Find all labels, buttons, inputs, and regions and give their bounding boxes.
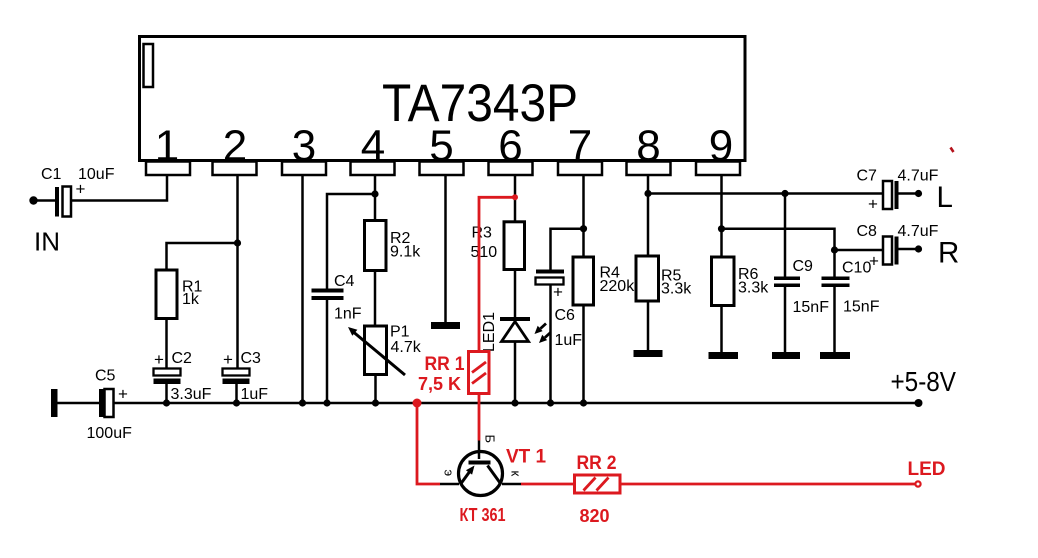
svg-text:7,5 K: 7,5 K <box>418 374 461 394</box>
svg-text:R3: R3 <box>472 225 493 242</box>
svg-text:+: + <box>118 385 128 404</box>
pin 2 <box>213 122 257 176</box>
node LED1/rail <box>511 399 518 406</box>
pin 3 <box>282 122 326 176</box>
wire R5 to ground <box>647 301 650 350</box>
wire C8 to R terminal <box>899 248 919 251</box>
svg-text:6: 6 <box>498 122 522 171</box>
node C2/rail <box>163 399 170 406</box>
svg-text:3.3uF: 3.3uF <box>171 386 212 403</box>
red wire pin6 to RR1 <box>479 197 515 351</box>
svg-text:4.7uF: 4.7uF <box>898 223 939 240</box>
pin 9 <box>696 122 740 176</box>
svg-text:C6: C6 <box>555 307 576 324</box>
wire pin 2 down to C3 <box>236 175 239 369</box>
node pin7/C6 <box>580 225 587 232</box>
svg-text:R: R <box>938 237 959 270</box>
svg-text:3: 3 <box>292 122 316 171</box>
potentiometer P1 4.7k <box>348 324 422 376</box>
svg-text:+: + <box>868 195 878 214</box>
wire C3 to rail <box>235 384 238 403</box>
wire pin 7 down to R4 <box>582 175 585 257</box>
svg-text:4.7uF: 4.7uF <box>898 168 939 185</box>
LED LED1 <box>481 312 551 352</box>
wire C4 top to pin 4 <box>327 194 375 289</box>
wire C9 top <box>784 194 787 277</box>
wire pin 5 down to ground <box>444 175 447 322</box>
node pin4/C4 <box>371 190 378 197</box>
capacitor C2 3.3uF <box>154 350 212 403</box>
wire C7 to L terminal <box>899 192 919 195</box>
svg-text:L: L <box>937 181 953 214</box>
node pin9 branch <box>718 225 725 232</box>
wire pin 4 down to R2 <box>374 175 377 221</box>
wire pin 3 down to rail <box>301 175 304 403</box>
svg-text:+: + <box>154 350 164 369</box>
ground R5 <box>634 350 663 357</box>
wire C10 to ground <box>833 287 836 352</box>
input terminal node <box>29 196 37 204</box>
svg-text:C4: C4 <box>334 273 355 290</box>
svg-text:C9: C9 <box>793 258 814 275</box>
svg-text:+: + <box>553 283 563 302</box>
pin 7 <box>558 122 602 176</box>
wire pin9 to C10/C8 <box>722 229 835 277</box>
svg-text:к: к <box>509 471 524 477</box>
svg-text:1k: 1k <box>182 291 200 308</box>
svg-text:1uF: 1uF <box>241 386 269 403</box>
node pin6 red <box>512 194 518 200</box>
svg-text:C7: C7 <box>857 168 878 185</box>
svg-text:TA7343P: TA7343P <box>382 74 578 133</box>
wire R6 to ground <box>720 306 723 353</box>
wire C6 top to pin 7 <box>551 229 584 270</box>
svg-text:IN: IN <box>34 227 60 257</box>
wire pin 9 down to R6 <box>720 175 723 257</box>
node R terminal <box>915 245 922 252</box>
svg-text:+5-8V: +5-8V <box>891 366 957 397</box>
svg-text:C10: C10 <box>842 260 871 277</box>
svg-text:220k: 220k <box>600 278 636 295</box>
wire pin8 node to C7 <box>648 192 883 195</box>
svg-text:15nF: 15nF <box>843 299 880 316</box>
svg-text:LED: LED <box>908 459 946 480</box>
resistor R3 510 <box>471 222 525 270</box>
IC U1 body TA7343P <box>140 37 746 161</box>
wire R1 to C2 <box>165 319 168 369</box>
resistor RR1 7,5K (red) <box>418 352 489 395</box>
wire LED1 to rail <box>514 342 517 404</box>
svg-text:2: 2 <box>223 122 247 171</box>
wire R4 to rail <box>582 305 585 403</box>
wire P1 to rail <box>374 375 377 404</box>
pin 1 <box>146 122 190 176</box>
svg-text:C2: C2 <box>172 350 193 367</box>
svg-text:10uF: 10uF <box>78 166 115 183</box>
svg-text:4: 4 <box>361 122 385 171</box>
resistor R6 3.3k <box>712 257 770 306</box>
resistor R5 3.3k <box>636 256 692 301</box>
svg-text:1uF: 1uF <box>555 332 583 349</box>
pin 4 <box>351 122 395 176</box>
transistor VT1 KT361 <box>440 435 547 526</box>
svg-text:510: 510 <box>471 244 498 261</box>
node pin8 branch to C7 <box>644 190 651 197</box>
ground C9 <box>772 352 800 359</box>
node junction pin2/R1 <box>234 239 241 246</box>
svg-text:820: 820 <box>580 506 610 526</box>
svg-text:1nF: 1nF <box>334 306 362 323</box>
svg-text:+: + <box>869 252 879 271</box>
wire pin 6 down to R3 <box>514 175 517 222</box>
wire node to C8 <box>835 249 884 252</box>
pin 8 <box>627 122 671 176</box>
pin 5 <box>420 122 464 176</box>
capacitor C3 1uF <box>223 350 269 403</box>
capacitor C10 15nF <box>822 252 880 316</box>
node rail/emitter red <box>413 399 422 408</box>
svg-text:P1: P1 <box>390 324 410 341</box>
capacitor C5 100uF <box>87 368 133 443</box>
node P1/rail <box>372 399 379 406</box>
IC notch mark <box>144 44 154 87</box>
svg-text:1: 1 <box>155 122 179 171</box>
capacitor C7 4.7uF <box>857 168 939 214</box>
resistor R2 9.1k <box>365 221 422 271</box>
svg-text:VT 1: VT 1 <box>506 447 547 468</box>
svg-text:Б: Б <box>483 435 498 444</box>
node C10/C8 <box>831 246 838 253</box>
wire C4 to rail <box>326 300 329 403</box>
wire R1 top to pin2 net <box>167 243 238 270</box>
ground C10 <box>820 352 850 359</box>
svg-text:C3: C3 <box>241 350 262 367</box>
red wire RR1 to transistor base <box>478 394 481 441</box>
wire pin 8 down to R5 <box>647 175 650 256</box>
ground pin5 <box>431 322 460 329</box>
capacitor C8 4.7uF <box>857 223 939 265</box>
svg-text:4.7k: 4.7k <box>391 339 422 356</box>
red wire RR2 to LED terminal <box>620 483 916 486</box>
resistor R4 220k <box>573 257 635 305</box>
svg-text:3.3k: 3.3k <box>661 281 692 298</box>
red wire rail to emitter <box>417 403 440 484</box>
wire C2 to rail <box>165 384 168 403</box>
C5 input terminal bar <box>51 389 58 417</box>
node R4/rail <box>580 399 587 406</box>
svg-text:9: 9 <box>709 122 733 171</box>
wire R2 to P1 <box>374 271 377 327</box>
svg-text:C5: C5 <box>95 368 116 385</box>
node C3/rail <box>233 399 240 406</box>
svg-text:C1: C1 <box>41 166 62 183</box>
svg-text:RR 2: RR 2 <box>577 453 617 474</box>
wire terminal to C5 <box>58 402 100 405</box>
svg-text:7: 7 <box>568 122 592 171</box>
resistor R1 1k <box>156 270 203 319</box>
wire C6 to rail <box>549 285 552 404</box>
svg-text:C8: C8 <box>857 223 878 240</box>
wire C9 to ground <box>784 287 787 352</box>
pin 6 <box>489 122 533 176</box>
svg-text:RR 1: RR 1 <box>425 354 465 375</box>
svg-text:+: + <box>223 350 233 369</box>
svg-text:5: 5 <box>429 122 453 171</box>
node C9 top <box>781 190 788 197</box>
power rail +5-8V <box>114 402 919 405</box>
svg-text:9.1k: 9.1k <box>390 244 421 261</box>
svg-text:э: э <box>442 470 457 477</box>
red wire collector to RR2 <box>521 483 575 486</box>
wire input to C1 <box>34 199 56 202</box>
wire R3 to LED1 <box>514 270 517 318</box>
svg-text:КТ 361: КТ 361 <box>460 505 506 525</box>
node LED terminal (red ring) <box>915 481 920 486</box>
svg-text:8: 8 <box>636 122 660 171</box>
node C4/rail <box>323 399 330 406</box>
node pin3/rail <box>299 399 306 406</box>
capacitor C9 15nF <box>774 258 829 316</box>
svg-text:LED1: LED1 <box>481 312 498 352</box>
ground R6 <box>709 352 739 359</box>
red stray mark <box>951 148 954 153</box>
svg-text:3.3k: 3.3k <box>738 280 769 297</box>
capacitor C4 1nF <box>312 273 362 323</box>
svg-text:15nF: 15nF <box>793 299 830 316</box>
node C6/rail <box>547 399 554 406</box>
node L terminal <box>915 190 922 197</box>
wire C1 to pin 1 <box>71 175 167 201</box>
resistor RR2 820 (red) <box>575 453 621 526</box>
svg-text:100uF: 100uF <box>87 425 133 442</box>
capacitor C1 10uF <box>41 166 115 217</box>
node rail end <box>915 399 923 407</box>
capacitor C6 1uF <box>536 270 583 350</box>
